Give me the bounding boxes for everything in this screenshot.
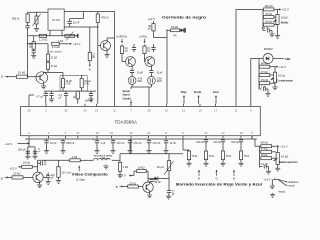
svg-text:mando: mando [278,192,286,194]
svg-text:22 kΩ: 22 kΩ [51,57,58,60]
svg-text:2.2 nF: 2.2 nF [262,27,270,30]
svg-text:+12 V: +12 V [119,174,126,178]
svg-text:TDA3566A: TDA3566A [115,120,138,125]
svg-text:+12 V: +12 V [279,65,286,69]
svg-text:kΩ: kΩ [125,50,128,53]
svg-text:2.2 nF: 2.2 nF [259,86,267,89]
svg-text:B: B [89,68,91,72]
svg-text:68 kΩ: 68 kΩ [261,141,268,145]
svg-text:B: B [1,75,3,79]
svg-text:47 kΩ: 47 kΩ [265,12,272,16]
svg-text:800 nF: 800 nF [66,141,74,145]
svg-text:56 pF: 56 pF [155,181,162,184]
svg-text:100 nF: 100 nF [196,141,204,144]
svg-text:DL700: DL700 [52,18,60,22]
svg-text:75 Ω: 75 Ω [226,154,232,158]
svg-text:100 nF: 100 nF [85,100,93,103]
svg-text:470 nF: 470 nF [133,141,141,145]
svg-text:kΩ: kΩ [29,46,32,49]
svg-text:R: R [198,177,200,181]
svg-text:4.7 μF: 4.7 μF [36,96,44,99]
svg-text:20 pF: 20 pF [137,72,144,75]
svg-text:+12 V: +12 V [282,8,289,12]
svg-text:+12 V: +12 V [10,167,18,171]
svg-text:75 Ω: 75 Ω [244,154,250,158]
svg-text:kΩ: kΩ [73,96,76,99]
svg-text:Borrado Inserción de Rojo Verd: Borrado Inserción de Rojo Verde y Azul [176,182,262,186]
svg-text:15 kΩ: 15 kΩ [261,153,268,157]
svg-text:(1 Vpp): (1 Vpp) [76,177,85,181]
svg-text:470 Ω: 470 Ω [101,16,109,20]
svg-text:470 nF: 470 nF [116,141,124,145]
svg-text:40 μH: 40 μH [157,165,164,169]
svg-text:G: G [216,177,218,181]
svg-text:120 kΩ: 120 kΩ [264,4,272,8]
svg-text:Azul: Azul [213,90,219,94]
svg-text:+12 V: +12 V [280,145,287,149]
svg-text:(7%): (7%) [84,83,89,86]
svg-text:kΩ: kΩ [92,56,95,59]
svg-text:+12 V: +12 V [264,177,271,181]
svg-text:MHz: MHz [138,80,144,83]
svg-text:B: B [1,176,3,180]
svg-text:Corriente de negro: Corriente de negro [162,16,206,20]
svg-text:+12 V: +12 V [73,42,81,46]
svg-text:10 kΩ: 10 kΩ [278,74,285,78]
svg-text:75 Ω: 75 Ω [192,154,198,158]
svg-text:100 μF: 100 μF [18,148,27,152]
svg-text:Brillo: Brillo [281,21,289,25]
svg-text:1 kΩ: 1 kΩ [123,165,128,169]
svg-text:BAW62: BAW62 [264,47,273,51]
svg-text:ultrablanco: ultrablanco [288,181,300,184]
svg-text:1 μF: 1 μF [100,141,106,145]
svg-text:+12 V: +12 V [148,17,156,21]
svg-text:(+HPSO): (+HPSO) [116,35,127,39]
svg-text:10.7 μH: 10.7 μH [62,171,71,175]
svg-text:68 kΩ: 68 kΩ [261,62,268,66]
svg-text:75 Ω: 75 Ω [209,154,215,158]
svg-text:1.2 kΩ: 1.2 kΩ [39,37,47,41]
svg-text:MHz: MHz [157,80,163,83]
svg-text:100 nF: 100 nF [231,141,239,144]
svg-text:B: B [233,177,235,181]
svg-text:Saturación: Saturación [279,160,298,164]
svg-text:Castle: Castle [123,97,132,101]
svg-text:390 ns: 390 ns [101,156,109,160]
svg-text:82 kΩ: 82 kΩ [171,25,178,29]
svg-text:10 kΩ: 10 kΩ [18,71,25,75]
svg-text:1 kΩ: 1 kΩ [72,155,77,159]
svg-text:15 kΩ: 15 kΩ [265,20,272,24]
svg-text:20 pF: 20 pF [157,72,164,75]
svg-text:15 kΩ: 15 kΩ [261,78,268,82]
svg-text:10 kΩ: 10 kΩ [281,155,288,159]
svg-text:(7%): (7%) [66,83,71,86]
svg-text:+: + [93,137,95,141]
svg-text:47 kΩ: 47 kΩ [261,147,268,151]
svg-text:22 kΩ: 22 kΩ [129,181,136,185]
svg-text:B: B [116,185,118,189]
svg-text:10 nF: 10 nF [169,141,176,145]
svg-text:(+PAL): (+PAL) [139,35,147,39]
svg-text:Vídeo Compuesto: Vídeo Compuesto [72,172,109,176]
svg-text:Verde: Verde [194,90,202,94]
svg-text:+12 V: +12 V [5,142,13,146]
svg-text:390 Ω: 390 Ω [12,17,19,21]
svg-text:ABL: ABL [285,57,291,61]
svg-text:normal: normal [288,185,295,188]
svg-text:47 kΩ: 47 kΩ [261,70,268,74]
svg-text:10 nF: 10 nF [73,21,80,25]
svg-text:Contraste: Contraste [276,78,293,82]
svg-text:10 kΩ: 10 kΩ [281,16,288,20]
svg-text:Rojo: Rojo [181,90,188,94]
svg-text:10 kΩ: 10 kΩ [138,166,145,170]
svg-text:22 kΩ: 22 kΩ [13,171,20,175]
svg-text:kΩ: kΩ [147,50,150,53]
svg-text:10 kΩ: 10 kΩ [23,161,30,165]
svg-text:470 nF: 470 nF [152,141,160,145]
svg-text:10 nF: 10 nF [50,141,57,145]
svg-text:kΩ: kΩ [148,28,151,31]
svg-text:hue control: hue control [49,50,62,54]
svg-text:47 kΩ: 47 kΩ [51,65,58,68]
svg-text:100 nF: 100 nF [213,141,221,144]
svg-text:2.2 kΩ: 2.2 kΩ [52,45,60,49]
